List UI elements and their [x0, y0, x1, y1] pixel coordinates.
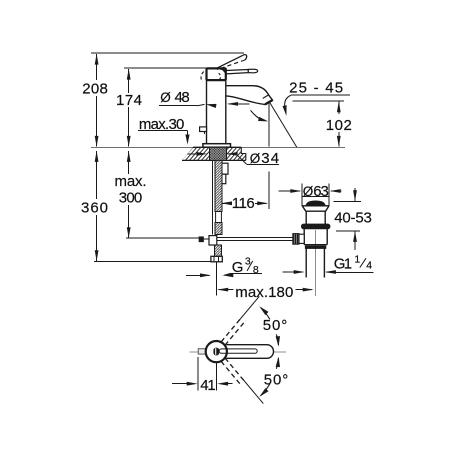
raised lever top edge: [217, 55, 243, 68]
deck right broken edge: [241, 147, 246, 160]
deck reference line: [91, 146, 345, 148]
drain flange: [302, 206, 329, 211]
dimension 41 (plan offset): [172, 357, 233, 394]
stream swivel arc: [251, 110, 269, 121]
svg-text:4: 4: [366, 260, 372, 272]
outlet extension line upper: [268, 104, 270, 147]
dimension 116 (center to outlet): [221, 195, 268, 212]
upper 50° arc dimension: [259, 306, 287, 346]
plan gray tab: [198, 349, 206, 354]
svg-text:Ø: Ø: [250, 151, 261, 166]
dashed arc inside head: [219, 73, 221, 79]
svg-text:max.: max.: [115, 173, 147, 190]
svg-text:63: 63: [313, 183, 329, 200]
rod end cap: [199, 237, 203, 242]
lever neck on head: [219, 69, 226, 74]
lever-top reference line y=53: [91, 52, 244, 54]
knurled adjuster knob: [293, 234, 299, 245]
supply hose lower: [215, 223, 222, 235]
rod level reference line y=238: [126, 237, 200, 239]
threaded shank in deck: [210, 147, 227, 160]
horizontal lever arm: [226, 70, 248, 74]
svg-text:41: 41: [200, 377, 216, 394]
label Ø34 with leaders: [188, 150, 280, 167]
drain centerline: [314, 230, 316, 296]
svg-text:50°: 50°: [263, 317, 288, 334]
svg-text:1: 1: [354, 253, 360, 265]
mounting washer: [220, 174, 226, 184]
plan lever slot: [219, 349, 257, 353]
dimension 360 (height below deck): [79, 151, 111, 261]
pop-up rod clamp: [209, 236, 217, 245]
svg-text:Ø: Ø: [160, 90, 171, 105]
svg-text:48: 48: [175, 89, 190, 106]
dashed lever raised 50° (plan): [221, 296, 259, 345]
G3/8 hex fitting: [211, 256, 222, 262]
hose-end reference line y=261: [94, 260, 211, 262]
dimension Ø63 (flange): [278, 183, 341, 205]
drain upper body: [306, 211, 325, 224]
plan body circle ring: [206, 341, 227, 362]
dashed lever-end arc left of head: [201, 72, 204, 82]
dimension 208 (height to raised lever): [80, 54, 110, 147]
drain locknut: [302, 224, 330, 228]
drain body bottom band: [304, 245, 327, 249]
stream 45deg line: [270, 103, 297, 147]
supply hose plain segment: [216, 212, 222, 223]
faucet body cylinder: [207, 80, 226, 144]
25-45 curved leader: [283, 95, 291, 116]
drain lower body: [304, 229, 327, 245]
svg-text:208: 208: [82, 80, 108, 97]
faucet centerline below fitting: [216, 262, 218, 296]
dimension 174 (height to body top): [114, 69, 144, 147]
dashed lever lowered 50° (plan): [221, 358, 263, 404]
raised lever dashed bottom edge: [217, 60, 245, 70]
spout outlet inner line: [263, 95, 269, 99]
dimension 102 (outlet height): [293, 101, 354, 147]
mounting nut: [220, 163, 228, 174]
dimension max.180 (rod reach): [217, 284, 314, 301]
svg-text:50°: 50°: [264, 372, 289, 389]
plan cartridge detail: [213, 348, 219, 356]
deck bottom line: [182, 159, 246, 161]
rod stub on drain: [299, 234, 304, 243]
drain plug cap: [306, 201, 325, 206]
raised lever rounded tip: [243, 55, 247, 60]
svg-text:360: 360: [81, 200, 108, 217]
deck hatching: [176, 146, 262, 162]
svg-text:300: 300: [119, 189, 143, 206]
svg-text:102: 102: [326, 117, 352, 134]
label max.30 with leader: [138, 116, 190, 145]
svg-text:G1: G1: [334, 255, 352, 272]
label 25-45: [289, 79, 350, 96]
lever paddle end: [248, 69, 257, 73]
supply hose upper: [215, 160, 222, 211]
mounting stud line: [212, 160, 214, 234]
body-top reference line y=68: [124, 67, 206, 69]
pop-up horizontal rod: [217, 238, 293, 241]
svg-text:174: 174: [116, 92, 142, 109]
outlet extension line lower: [268, 171, 270, 209]
plan centerline: [189, 351, 286, 353]
svg-text:40-53: 40-53: [334, 209, 372, 226]
rod left segment: [203, 238, 209, 240]
svg-text:Ø: Ø: [303, 184, 314, 199]
set-screw tab on body left: [200, 127, 207, 134]
lower 50° arc dimension: [259, 357, 288, 397]
dimension max.300 (hose length): [112, 151, 148, 238]
spout outlet face: [265, 100, 272, 104]
spout outline: [226, 86, 273, 105]
svg-text:8: 8: [253, 264, 259, 276]
Ø48 right arrow: [227, 102, 250, 106]
label Ø48 with leader: [159, 89, 217, 108]
deck top line: [193, 146, 241, 148]
label G 3/8 (hose thread): [186, 256, 262, 278]
cartridge head U-box: [207, 68, 226, 80]
svg-text:max.180: max.180: [235, 284, 293, 301]
label G1 1/4 (tailpiece thread): [282, 253, 373, 274]
dimension 40-53 (waste clamping range): [333, 188, 373, 250]
svg-text:25 - 45: 25 - 45: [289, 79, 343, 96]
hose below clamp: [215, 245, 222, 256]
escutcheon base plate: [203, 144, 231, 148]
plan lever arm: [226, 345, 273, 359]
plan body circle fill: [206, 341, 227, 362]
drain tailpiece: [306, 248, 324, 277]
svg-text:116: 116: [232, 195, 255, 212]
